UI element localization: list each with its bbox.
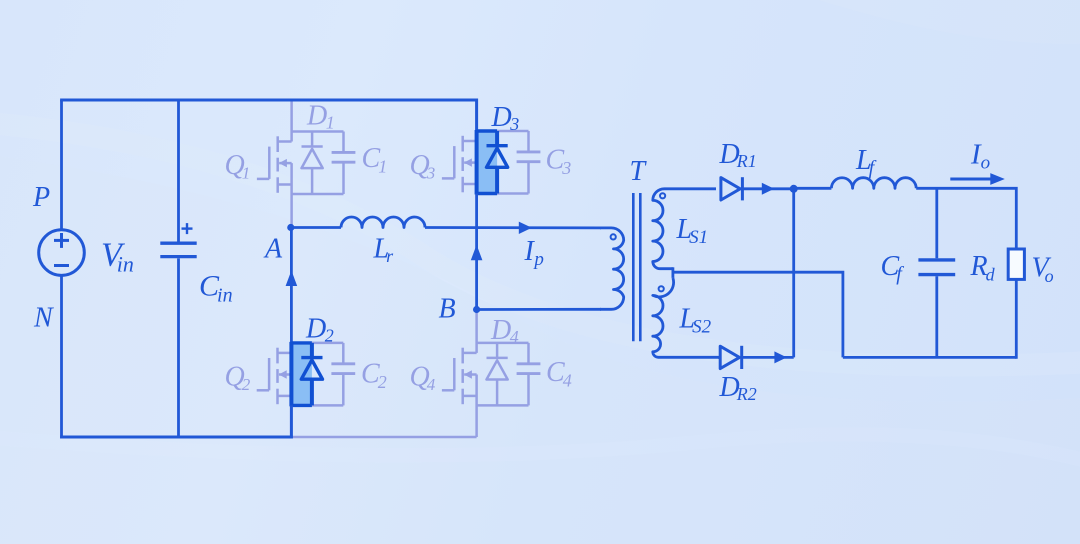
svg-text:Cf: Cf [881,251,905,285]
transformer secondary LS1 [653,189,716,269]
wire node B to primary bottom [477,308,601,311]
wire DR1 to node [742,187,793,190]
diode D3 highlighted [477,130,508,195]
wire center tap [673,272,843,357]
svg-text:C3: C3 [546,144,572,178]
svg-text:T: T [630,156,648,187]
center tap stub [672,267,675,278]
wire node A to D2 [290,226,293,344]
svg-text:A: A [263,234,283,265]
svg-text:Io: Io [970,139,990,174]
wire node A to Lr [291,226,341,229]
wire Lf to output corner [916,188,1016,249]
wire Cf bottom [935,276,938,357]
svg-text:LS2: LS2 [679,303,712,337]
svg-text:N: N [33,303,54,334]
capacitor Cf [918,260,955,275]
svg-text:D1: D1 [306,101,335,133]
wire bottom rail faded segment [291,436,476,439]
transistor Q3 [442,136,477,193]
node B [473,306,480,313]
wire Cin leg top [177,100,180,242]
wire D3 to node B [475,194,478,311]
wire DR2 to corner [742,356,794,359]
wire Cf top [935,188,938,258]
wire left rail bottom [60,275,63,438]
wire DR1 node to DR2 [792,189,795,358]
transformer core [633,193,640,341]
capacitor C3 frame (faded) [497,131,540,194]
diode D1 body diode frame [292,132,344,195]
current arrow Io [950,173,1005,185]
primary polarity dot [611,234,616,239]
diode D4 body diode frame [477,343,529,406]
capacitor C2 frame (faded) [312,343,355,406]
diode DR1 [721,177,743,200]
diode D2 highlighted [291,342,322,407]
transistor Q2 [257,348,292,405]
LS1 polarity dot [660,193,665,198]
wire top rail [60,100,477,131]
wire Cin leg bottom [177,258,180,437]
inductor Lr [341,217,425,227]
wire LS2 to DR2 [718,356,720,359]
rectifier output node [790,185,798,193]
transistor Q4 [442,348,477,405]
svg-text:Q1: Q1 [225,150,251,183]
wire output bottom rail [843,356,1016,359]
svg-text:Rd: Rd [970,251,996,285]
current arrow on A leg [286,271,298,287]
capacitor Cin [160,223,196,257]
svg-text:C1: C1 [362,143,388,177]
wire node to Lf [794,187,832,190]
svg-text:Q3: Q3 [410,150,436,183]
voltage source Vin [39,230,85,276]
current arrow on B leg [471,245,483,260]
wire Q4 leg (faded) [475,310,478,353]
diode DR2 [720,346,742,369]
current arrow after DR1 [762,183,774,195]
current arrow after DR2 [774,351,786,363]
LS2 polarity dot [659,286,664,291]
wire left rail top [60,100,63,230]
svg-text:DR2: DR2 [719,372,757,404]
transformer secondary LS2 [653,278,720,357]
inductor Lf [831,178,916,189]
node A [287,224,294,231]
wire Q1 leg (faded) [290,100,293,142]
wire D2 to bottom rail [290,405,293,438]
svg-text:Ip: Ip [524,236,544,270]
capacitor C4 [517,364,541,374]
capacitor C1 [332,152,356,162]
current arrow Ip [519,222,532,234]
wire Rd bottom [1015,279,1018,358]
svg-text:D3: D3 [491,102,520,134]
resistor Rd [1008,249,1024,279]
svg-text:P: P [32,182,50,213]
wire Lr to transformer primary [425,226,601,229]
svg-text:B: B [439,294,456,325]
svg-text:Vo: Vo [1032,253,1054,287]
wire bottom rail [60,436,293,439]
svg-text:DR1: DR1 [719,139,757,171]
transistor Q1 [257,136,292,193]
svg-text:LS1: LS1 [676,214,709,248]
svg-text:Lf: Lf [855,145,877,179]
transformer primary winding [600,228,624,309]
